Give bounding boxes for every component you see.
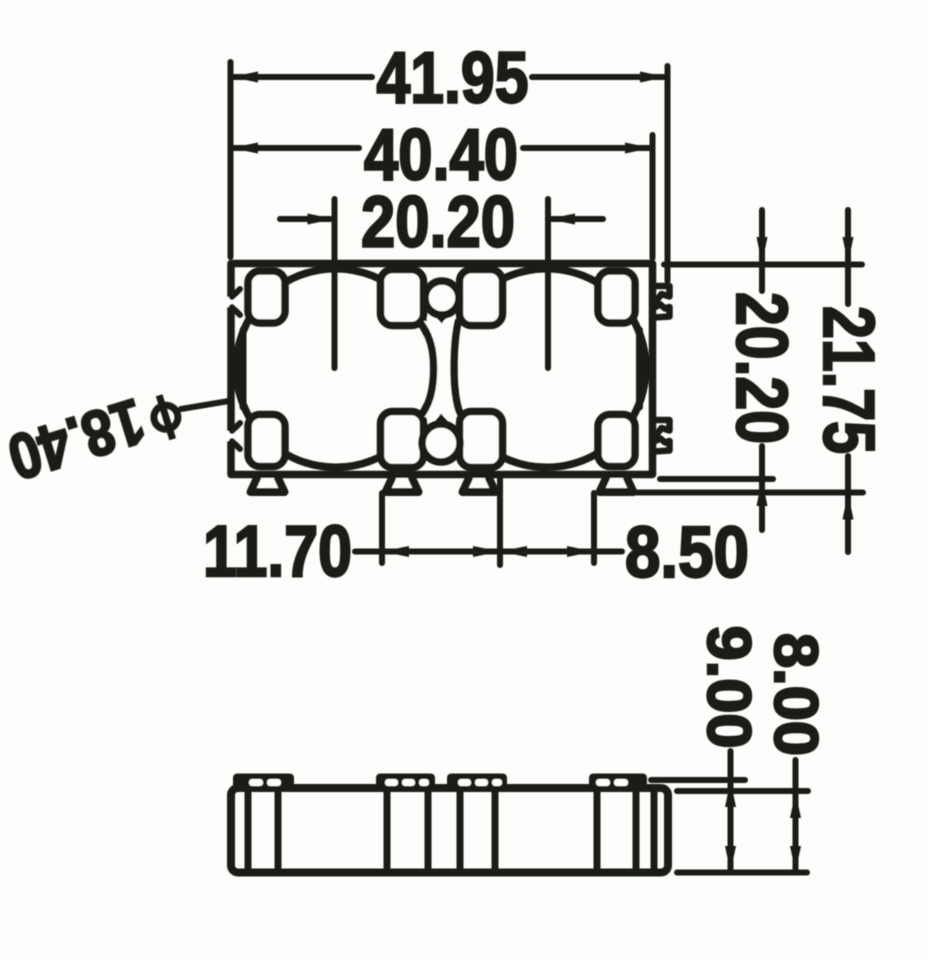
foot 4 <box>600 478 634 492</box>
dim line 21.75 vertical stub above text <box>845 264 851 304</box>
arrowhead 20.20 right <box>548 214 575 225</box>
plan view outer rectangle <box>231 264 653 475</box>
side view body outline <box>231 788 668 873</box>
left edge notch upper hooks <box>232 289 240 315</box>
side view tab 2 <box>376 774 435 791</box>
small circle bottom center <box>422 424 460 462</box>
arrowhead 40.40 left <box>231 143 258 154</box>
svg-text:8.00: 8.00 <box>762 633 830 756</box>
arrowhead 41.95 left <box>231 72 258 83</box>
extension line tab top <box>651 777 745 783</box>
arrowhead 9.00 top <box>725 781 736 807</box>
left edge notch upper (white gap) <box>225 297 237 307</box>
bottom extension line 20.20 (body bottom) <box>660 476 773 482</box>
side view internal vertical 9 <box>651 789 658 872</box>
side view tab 1 <box>233 774 294 791</box>
side view tab 3 <box>447 774 507 791</box>
central channel erase <box>424 321 458 417</box>
extension line body top <box>677 788 808 794</box>
arrowhead 11.70 right <box>473 546 500 557</box>
right edge tab lower <box>654 420 670 452</box>
side view internal vertical 1 <box>245 789 252 872</box>
channel top cusp <box>434 314 449 324</box>
extension line foot3 right <box>497 479 503 565</box>
dim line 20.20 left arrow segment <box>280 216 330 222</box>
leader line phi18.40 <box>181 401 229 409</box>
side view internal vertical 6 <box>492 789 499 872</box>
dim line 20.20 vertical stub above text <box>759 264 765 291</box>
right edge tab upper <box>654 286 670 318</box>
central channel left wall <box>421 323 434 414</box>
central channel right wall <box>454 322 460 412</box>
left edge notch lower hooks <box>232 423 240 449</box>
center line battery 1 <box>332 199 338 368</box>
dim line 11.70 / 8.50 <box>355 549 622 555</box>
extension line right 40.40 <box>650 135 656 258</box>
svg-text:9.00: 9.00 <box>695 626 763 749</box>
corner square TR <box>598 271 635 323</box>
dim line 9.00 <box>728 751 734 872</box>
arrowhead 9.00 bottom <box>725 846 736 872</box>
foot 1 <box>251 478 285 492</box>
extension line body bottom <box>677 870 807 876</box>
dim line 41.95 left segment <box>233 74 372 80</box>
arrowhead 41.95 right <box>640 72 667 83</box>
dim line 21.75 vertical stub below text <box>845 456 851 491</box>
arrowhead 21.75 bottom <box>843 493 854 520</box>
mid square top-right <box>460 270 503 326</box>
dim line 20.20 vertical stub below text <box>759 446 765 478</box>
mid square bottom-right <box>460 412 503 468</box>
dim line 21.75 vertical upper outside <box>845 210 851 262</box>
left edge notch lower (white gap) <box>225 431 237 441</box>
corner square BL <box>248 415 285 467</box>
arrowhead 8.50 right <box>567 546 594 557</box>
tab 2 slots <box>385 779 398 786</box>
side view internal vertical 7 <box>594 789 601 872</box>
mid square top-left <box>381 270 424 326</box>
svg-text:21.75: 21.75 <box>808 306 888 454</box>
arrowhead 8.50 left <box>500 546 527 557</box>
svg-text:20.20: 20.20 <box>721 292 801 444</box>
svg-text:11.70: 11.70 <box>203 512 352 592</box>
corner square TL <box>248 271 285 323</box>
battery bore circle 1 (plan view) <box>236 269 435 468</box>
side view tab 4 <box>589 774 647 791</box>
small circle top center <box>425 281 459 315</box>
center line battery 2 <box>545 199 551 368</box>
dim line 20.20 vertical lower outside <box>759 480 765 530</box>
bore flat wall left (battery 1) <box>240 330 247 407</box>
tab 3 slots <box>458 779 471 786</box>
channel bottom cusp <box>434 414 449 424</box>
corner square BR <box>598 415 635 467</box>
side view internal vertical 8 <box>633 789 640 872</box>
side view internal vertical 4 <box>425 789 432 872</box>
extension line right 41.95 <box>665 66 671 281</box>
bore flat wall right (battery 2) <box>636 330 643 407</box>
mid square bottom-left <box>381 412 424 468</box>
foot 2 <box>386 478 419 492</box>
arrowhead 11.70 left <box>382 546 409 557</box>
svg-text:8.50: 8.50 <box>625 513 749 593</box>
extension line foot2 left <box>379 493 385 563</box>
arrowhead 21.75 top <box>843 237 854 264</box>
tab 4 slots <box>596 779 610 786</box>
dim text phi18.40 (rotated) <box>0 375 186 494</box>
extension line foot4 left <box>591 493 597 563</box>
dim line 20.20 vertical upper outside <box>759 210 765 262</box>
dim line 21.75 vertical lower outside <box>845 494 851 552</box>
side view internal vertical 2 <box>275 789 282 872</box>
battery bore circle 2 (plan view) <box>447 269 646 468</box>
arrowhead 20.20 right-dim bottom <box>757 479 768 506</box>
side view internal vertical 5 <box>457 789 464 872</box>
side view internal vertical 3 <box>384 789 391 872</box>
dim line 20.20 right arrow segment <box>552 216 603 222</box>
arrowhead 8.00 bottom <box>790 846 801 872</box>
extension line left (41.95 / 40.40) <box>228 62 234 257</box>
arrowhead 20.20 right-dim top <box>757 237 768 264</box>
dim line 8.00 <box>793 760 799 871</box>
top extension line right side <box>664 262 862 268</box>
arrowhead 20.20 left <box>308 214 335 225</box>
dim line 40.40 right segment <box>523 145 650 151</box>
bottom extension line 21.75 (foot base) <box>637 490 863 496</box>
svg-text:41.95: 41.95 <box>377 39 529 119</box>
arrowhead 8.00 top <box>790 792 801 818</box>
tab 1 slots <box>249 779 263 786</box>
arrowhead 40.40 right <box>625 143 652 154</box>
foot 3 <box>463 478 496 492</box>
svg-text:20.20: 20.20 <box>361 183 515 263</box>
dim line 41.95 right segment <box>532 74 665 80</box>
dim line 40.40 left segment <box>233 145 359 151</box>
